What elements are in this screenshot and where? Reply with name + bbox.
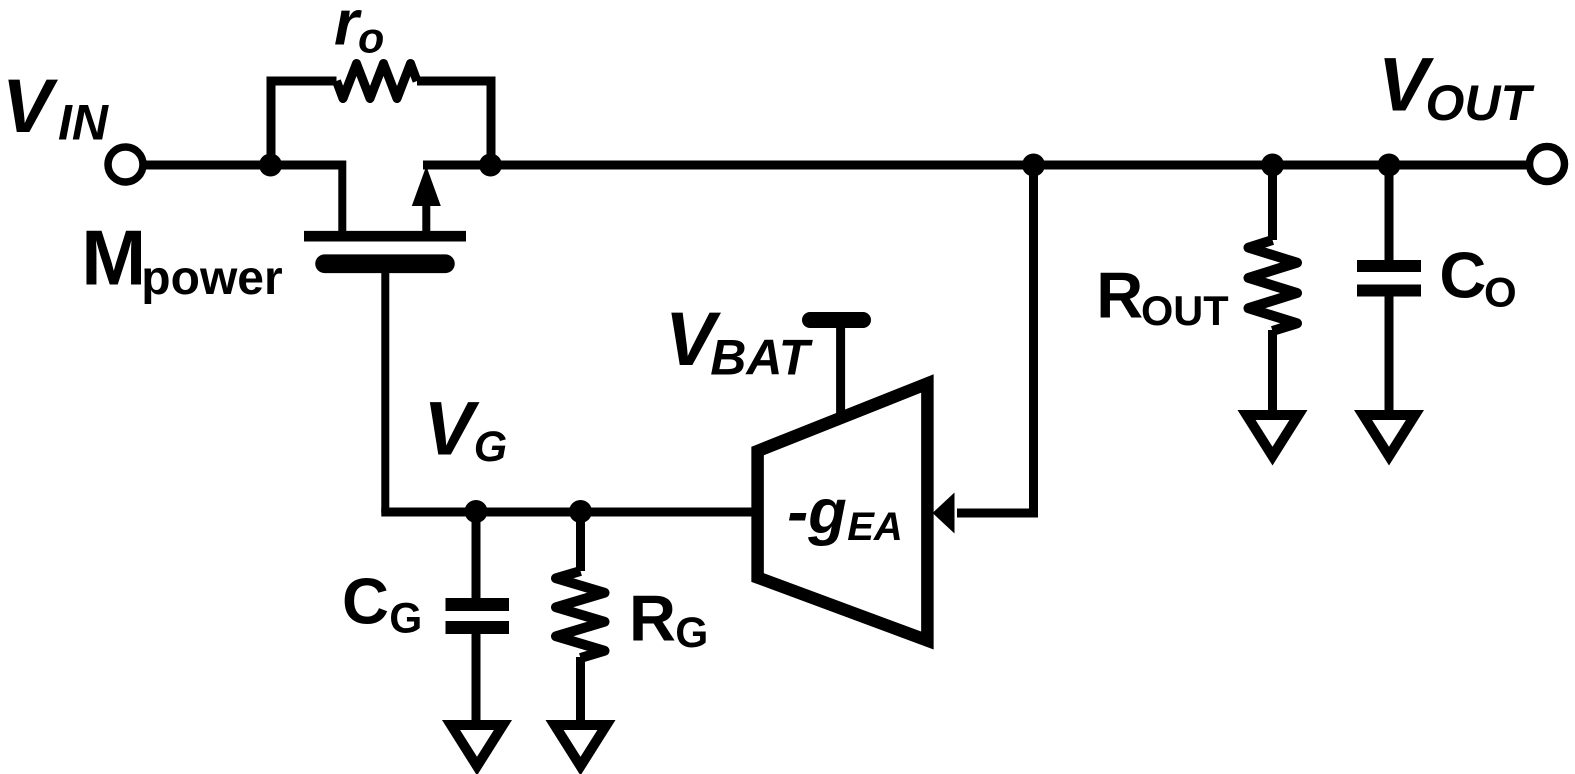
svg-text:R: R (629, 582, 676, 655)
svg-text:R: R (1096, 259, 1143, 332)
svg-text:power: power (141, 252, 282, 305)
svg-text:IN: IN (58, 95, 109, 151)
svg-text:G: G (474, 423, 507, 471)
svg-text:EA: EA (847, 505, 903, 549)
svg-text:M: M (81, 214, 146, 302)
svg-text:-g: -g (787, 477, 846, 547)
svg-text:o: o (358, 15, 384, 63)
svg-text:OUT: OUT (1426, 75, 1536, 131)
svg-text:OUT: OUT (1141, 287, 1229, 334)
svg-text:V: V (424, 387, 480, 472)
svg-text:C: C (342, 565, 389, 638)
svg-text:O: O (1484, 269, 1517, 316)
svg-text:G: G (389, 596, 422, 643)
svg-text:C: C (1439, 239, 1486, 312)
svg-text:G: G (675, 610, 708, 657)
svg-text:BAT: BAT (710, 330, 814, 386)
svg-text:V: V (2, 64, 58, 149)
